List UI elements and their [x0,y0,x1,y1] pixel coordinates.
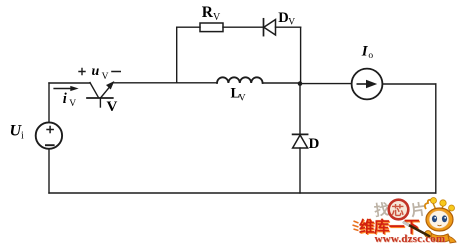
svg-text:V: V [213,12,221,23]
wire inductor to node A [263,82,300,84]
wire diode DV to corner [276,26,301,28]
svg-text:www.dzsc.com: www.dzsc.com [375,233,446,244]
transistor V gate lead down [99,98,101,107]
svg-text:V: V [107,99,118,115]
wire left vertical (rail down to Ui top) [48,83,50,123]
watermark speed lines [353,221,359,231]
svg-text:V: V [239,94,246,104]
svg-text:o: o [368,51,373,61]
svg-text:i: i [21,131,24,142]
wire top rail left (Ui to V) [49,82,90,84]
wire left vertical (Ui bottom to bottom rail) [48,149,50,193]
wire branch top left (to resistor) [177,26,200,28]
inductor LV arcs [217,77,263,83]
diode D triangle [293,135,308,148]
svg-text:u: u [92,64,100,79]
wire resistor to diode DV [223,26,264,28]
transistor V emitter diagonal [90,83,99,98]
resistor RV body [200,23,223,32]
svg-text:i: i [63,91,67,107]
watermark mascot [425,198,456,244]
wire right vertical (Io to bottom rail) [435,84,437,193]
current source Io circle [352,69,383,100]
transistor V base bar [87,97,113,99]
diode DV cathode bar [263,19,265,36]
label minus of uV [111,71,121,73]
transistor V collector diagonal with arrow [101,86,111,98]
wire node A to Io [300,83,352,85]
wire diode D to bottom rail [299,148,301,193]
wire branch right vertical down to node A [300,27,302,83]
bottom rail wire [49,192,436,194]
watermark red circle logo with xin [389,200,409,220]
svg-text:R: R [202,4,214,21]
wire branch left vertical [176,27,178,83]
voltage source Ui plus sign [46,126,54,134]
node A junction dot [298,81,303,86]
wire rail V to branch tap [113,82,177,84]
current arrow iV [53,88,71,90]
svg-text:V: V [69,99,76,109]
svg-text:片: 片 [410,200,427,220]
wire branch tap to inductor [177,82,217,84]
voltage source Ui minus sign [45,144,55,146]
wire node A down to diode D [299,84,301,135]
label plus of uV [78,68,85,75]
wire Io to right corner [383,83,436,85]
svg-text:V: V [288,18,295,28]
current source Io arrow [357,83,368,85]
svg-text:D: D [309,136,320,152]
watermark pen [404,223,429,237]
diode DV triangle [264,20,276,36]
svg-text:芯: 芯 [392,203,405,218]
diode D cathode bar [293,133,308,135]
svg-text:V: V [102,72,109,82]
voltage source Ui circle [36,122,62,148]
